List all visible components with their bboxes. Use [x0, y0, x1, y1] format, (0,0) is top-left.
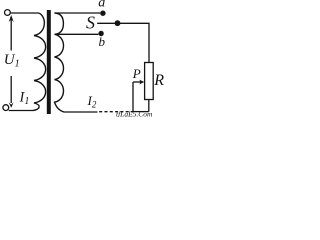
svg-text:I2: I2	[87, 93, 97, 110]
wire from T1 to primary top	[11, 12, 39, 14]
U1 arrowhead down	[9, 102, 14, 108]
wiper vertical wire	[132, 82, 134, 112]
wiper P arrowhead	[139, 80, 144, 85]
wire b (secondary middle tap)	[55, 33, 99, 35]
svg-text:U1: U1	[4, 52, 20, 70]
secondary winding upper loop	[55, 13, 64, 34]
terminal T1 top-left	[5, 10, 11, 16]
voltage arrow U1 line upper	[10, 20, 12, 51]
resistor R box	[145, 63, 154, 100]
R bottom lead	[148, 100, 150, 112]
wire from T2 to primary bottom	[9, 110, 33, 112]
switch S arm	[97, 22, 117, 24]
svg-text:a: a	[98, 0, 105, 11]
svg-text:tfLaE5.Com: tfLaE5.Com	[116, 110, 153, 118]
svg-text:I1: I1	[19, 90, 30, 108]
svg-text:S: S	[86, 13, 95, 33]
dashed wire segment	[99, 111, 133, 113]
svg-text:R: R	[153, 72, 164, 89]
svg-text:b: b	[99, 34, 106, 49]
svg-text:P: P	[132, 66, 141, 81]
transformer core	[47, 10, 51, 114]
terminal T2 bottom-left	[3, 105, 9, 111]
wire pole to right corner	[118, 23, 150, 62]
node a dot	[100, 11, 105, 16]
wire a (secondary top tap)	[55, 12, 101, 14]
wiper P arrow line	[133, 81, 141, 83]
secondary winding lower loops	[55, 34, 65, 112]
switch pole dot	[115, 20, 121, 26]
primary winding	[33, 13, 46, 111]
U1 arrowhead up	[9, 15, 14, 22]
wire I2 bottom secondary	[64, 111, 98, 113]
node b dot	[98, 31, 103, 36]
voltage arrow U1 line lower	[10, 76, 12, 103]
wire bottom right solid	[133, 111, 149, 113]
